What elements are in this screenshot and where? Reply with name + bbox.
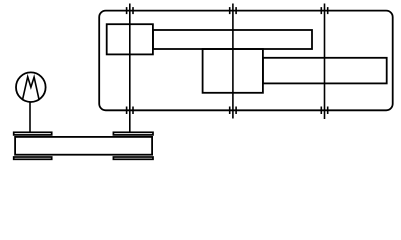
shaft I (input shaft)	[129, 4, 131, 133]
shaft II (intermediate shaft)	[232, 4, 234, 119]
pulley P1 bottom flange	[14, 157, 52, 159]
pulley P2 top flange	[113, 132, 153, 135]
gear Z1 (pinion, shaft I, first stage)	[107, 24, 153, 54]
bearing (shaft III, bottom wall)	[321, 107, 327, 115]
bearing (shaft II, bottom wall)	[230, 107, 236, 115]
motor shaft	[29, 102, 31, 133]
pulley P1 top flange	[14, 132, 52, 135]
bearing (shaft II, top wall)	[230, 7, 236, 14]
gear Z3 (pinion, shaft II, second stage)	[203, 49, 263, 93]
shaft III (output shaft)	[324, 4, 326, 120]
gear Z2 (wheel, shaft II, first stage)	[153, 30, 312, 49]
belt	[15, 137, 152, 155]
gearbox housing	[99, 11, 393, 111]
motor M circle	[16, 72, 46, 102]
motor letter M	[23, 77, 39, 99]
pulley P2 bottom flange	[113, 157, 153, 159]
bearing (shaft I, top wall)	[127, 7, 133, 14]
gear Z4 (wheel, shaft III, second stage)	[263, 58, 387, 84]
bearing (shaft I, bottom wall)	[127, 107, 133, 115]
bearing (shaft III, top wall)	[321, 7, 327, 14]
